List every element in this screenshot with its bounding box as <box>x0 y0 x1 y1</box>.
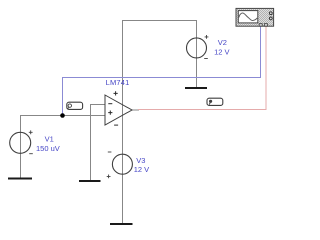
wire V2 vertical <box>196 20 198 88</box>
node junction dot <box>60 113 65 118</box>
svg-text:V1: V1 <box>45 135 54 144</box>
svg-text:12 V: 12 V <box>214 48 229 57</box>
svg-text:V3: V3 <box>136 156 145 165</box>
wire inverting input to ground <box>91 105 106 182</box>
ground (V1) <box>8 178 32 180</box>
source V3 <box>107 152 133 178</box>
wire scope channel B red <box>138 26 266 110</box>
wire supply drop through op-amp to V3 and ground <box>122 20 124 224</box>
svg-text:V2: V2 <box>218 38 227 47</box>
probe (output node) <box>207 98 223 105</box>
probe (input node) <box>67 102 83 109</box>
label V2 12 V <box>214 38 229 56</box>
ground (V2) <box>185 87 207 89</box>
svg-text:150 uV: 150 uV <box>36 144 60 153</box>
oscilloscope XSC1 <box>236 8 274 26</box>
svg-text:12 V: 12 V <box>134 165 149 174</box>
label V3 12 V <box>134 156 149 174</box>
wire top rail V+ <box>123 20 197 22</box>
svg-text:LM741: LM741 <box>106 78 130 87</box>
source V1 <box>10 130 33 153</box>
source V2 <box>187 35 209 59</box>
wire output stub <box>132 109 139 111</box>
wire scope channel A blue <box>63 26 261 116</box>
ground (inverting input) <box>79 180 101 182</box>
label V1 150 uV <box>36 135 60 153</box>
wire V1 to non-inverting input <box>21 116 106 179</box>
ground (V3) <box>110 223 133 225</box>
op-amp U1 LM741 triangle <box>105 91 132 125</box>
